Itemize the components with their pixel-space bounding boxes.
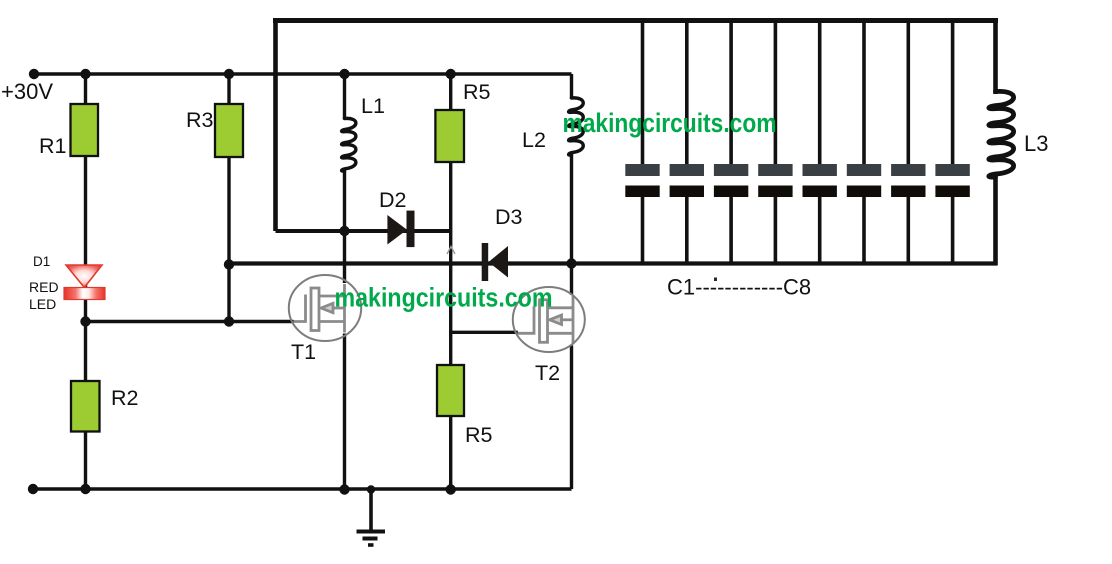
capacitor C3 (714, 21, 748, 264)
transistor T2 body circle (513, 287, 585, 352)
svg-text:T1: T1 (291, 340, 316, 364)
wire: +30V top supply rail (34, 72, 572, 75)
wire: R5 branch vertical (449, 74, 452, 489)
resistor R5 top (435, 110, 464, 162)
node: ground tap (367, 485, 375, 493)
node: R3 bottom / gate junction (224, 316, 234, 326)
node: D1/R2 to gate junction (80, 316, 90, 326)
svg-text:R3: R3 (186, 108, 214, 132)
capacitor C2 (670, 21, 704, 264)
svg-text:+30V: +30V (1, 79, 53, 104)
node: R3 to D3 rail junction (224, 259, 234, 269)
node: +30V rail left end (29, 69, 39, 79)
svg-text:R1: R1 (39, 134, 66, 158)
wire: T1 gate line (86, 320, 294, 323)
diode D3 (482, 243, 508, 281)
tank box top edge wire (273, 18, 998, 23)
svg-text:D3: D3 (495, 205, 523, 229)
svg-text:R5: R5 (463, 80, 491, 104)
wire: D3 / capacitor-bank bottom rail (229, 261, 997, 265)
wire: D2 cross-coupling (box corner to R5 line) (276, 229, 451, 233)
artifact dot above dashes (714, 278, 717, 282)
capacitor C6 (847, 21, 881, 264)
svg-text:D1: D1 (33, 254, 50, 269)
wire: L2 / T2 branch vertical upper (570, 74, 573, 99)
node: bottom rail left end (28, 484, 38, 494)
node: R5 bottom (446, 484, 456, 494)
svg-text:R2: R2 (111, 386, 138, 410)
wire: ground bottom rail (33, 487, 572, 490)
svg-text:makingcircuits.com: makingcircuits.com (563, 108, 777, 138)
wire: L2 / T2 branch vertical lower (570, 154, 573, 489)
inductor L2 (569, 98, 584, 155)
node: R5 top (446, 69, 456, 79)
LED D1 (red) (64, 265, 105, 300)
node: R2 bottom (80, 484, 90, 494)
svg-text:C1------------C8: C1------------C8 (667, 275, 811, 300)
svg-text:L2: L2 (522, 128, 546, 152)
svg-text:makingcircuits.com: makingcircuits.com (335, 283, 553, 313)
transistor T1 symbol (294, 283, 350, 334)
svg-text:R5: R5 (465, 423, 493, 447)
capacitor C5 (803, 21, 837, 264)
wire: L1 / T1 branch vertical upper (343, 74, 346, 120)
node: L1 bottom / D2 wire junction (339, 226, 349, 236)
node: L1 top (339, 69, 349, 79)
wire: L1 / T1 branch vertical lower (343, 170, 346, 489)
capacitor C7 (891, 21, 925, 264)
svg-text:D2: D2 (379, 188, 406, 212)
node: R1 top (80, 69, 90, 79)
node: R3 top (224, 69, 234, 79)
inductor L3 (work coil) (989, 91, 1014, 177)
inductor L1 (342, 118, 356, 171)
artifact arrow on R5 line (447, 247, 455, 255)
transistor T2 symbol (518, 295, 578, 346)
wire: R3 branch vertical (227, 74, 230, 322)
wire: T2 gate line (451, 331, 518, 334)
svg-text:T2: T2 (535, 361, 560, 385)
svg-text:LED: LED (29, 296, 56, 312)
node: T1 source bottom (339, 484, 349, 494)
transistor T1 body circle (289, 275, 361, 341)
capacitor C8 (935, 21, 969, 264)
capacitor C1 (625, 21, 659, 264)
resistor R3 (215, 104, 243, 157)
tank box right edge upper wire (993, 18, 998, 94)
resistor R1 (71, 104, 99, 156)
tank box left edge wire (273, 18, 278, 231)
diode D2 (387, 211, 414, 248)
resistor R2 (71, 381, 100, 432)
svg-text:L3: L3 (1024, 131, 1048, 156)
ground symbol (357, 490, 386, 546)
svg-text:L1: L1 (361, 94, 385, 118)
svg-text:RED: RED (29, 279, 59, 295)
wire: R1 branch vertical (R1-D1-R2) (84, 74, 87, 489)
node: L2/T2/D3 junction (566, 258, 576, 268)
capacitor C4 (758, 21, 792, 264)
resistor R5 bottom (437, 365, 464, 416)
tank box right edge lower wire (993, 175, 998, 266)
